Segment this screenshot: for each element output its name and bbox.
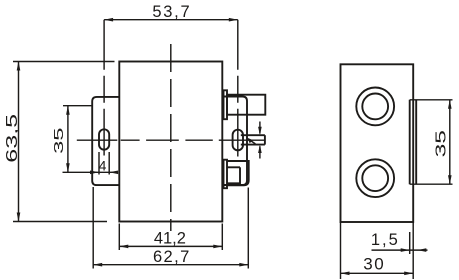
svg-text:35: 35: [433, 130, 449, 157]
svg-text:53,7: 53,7: [152, 3, 191, 21]
svg-text:63,5: 63,5: [3, 114, 20, 163]
svg-text:4: 4: [99, 157, 107, 173]
svg-text:62,7: 62,7: [153, 248, 191, 266]
svg-text:1,5: 1,5: [371, 231, 400, 249]
svg-text:30: 30: [363, 255, 385, 274]
svg-text:41,2: 41,2: [154, 229, 186, 247]
svg-text:35: 35: [52, 127, 66, 153]
